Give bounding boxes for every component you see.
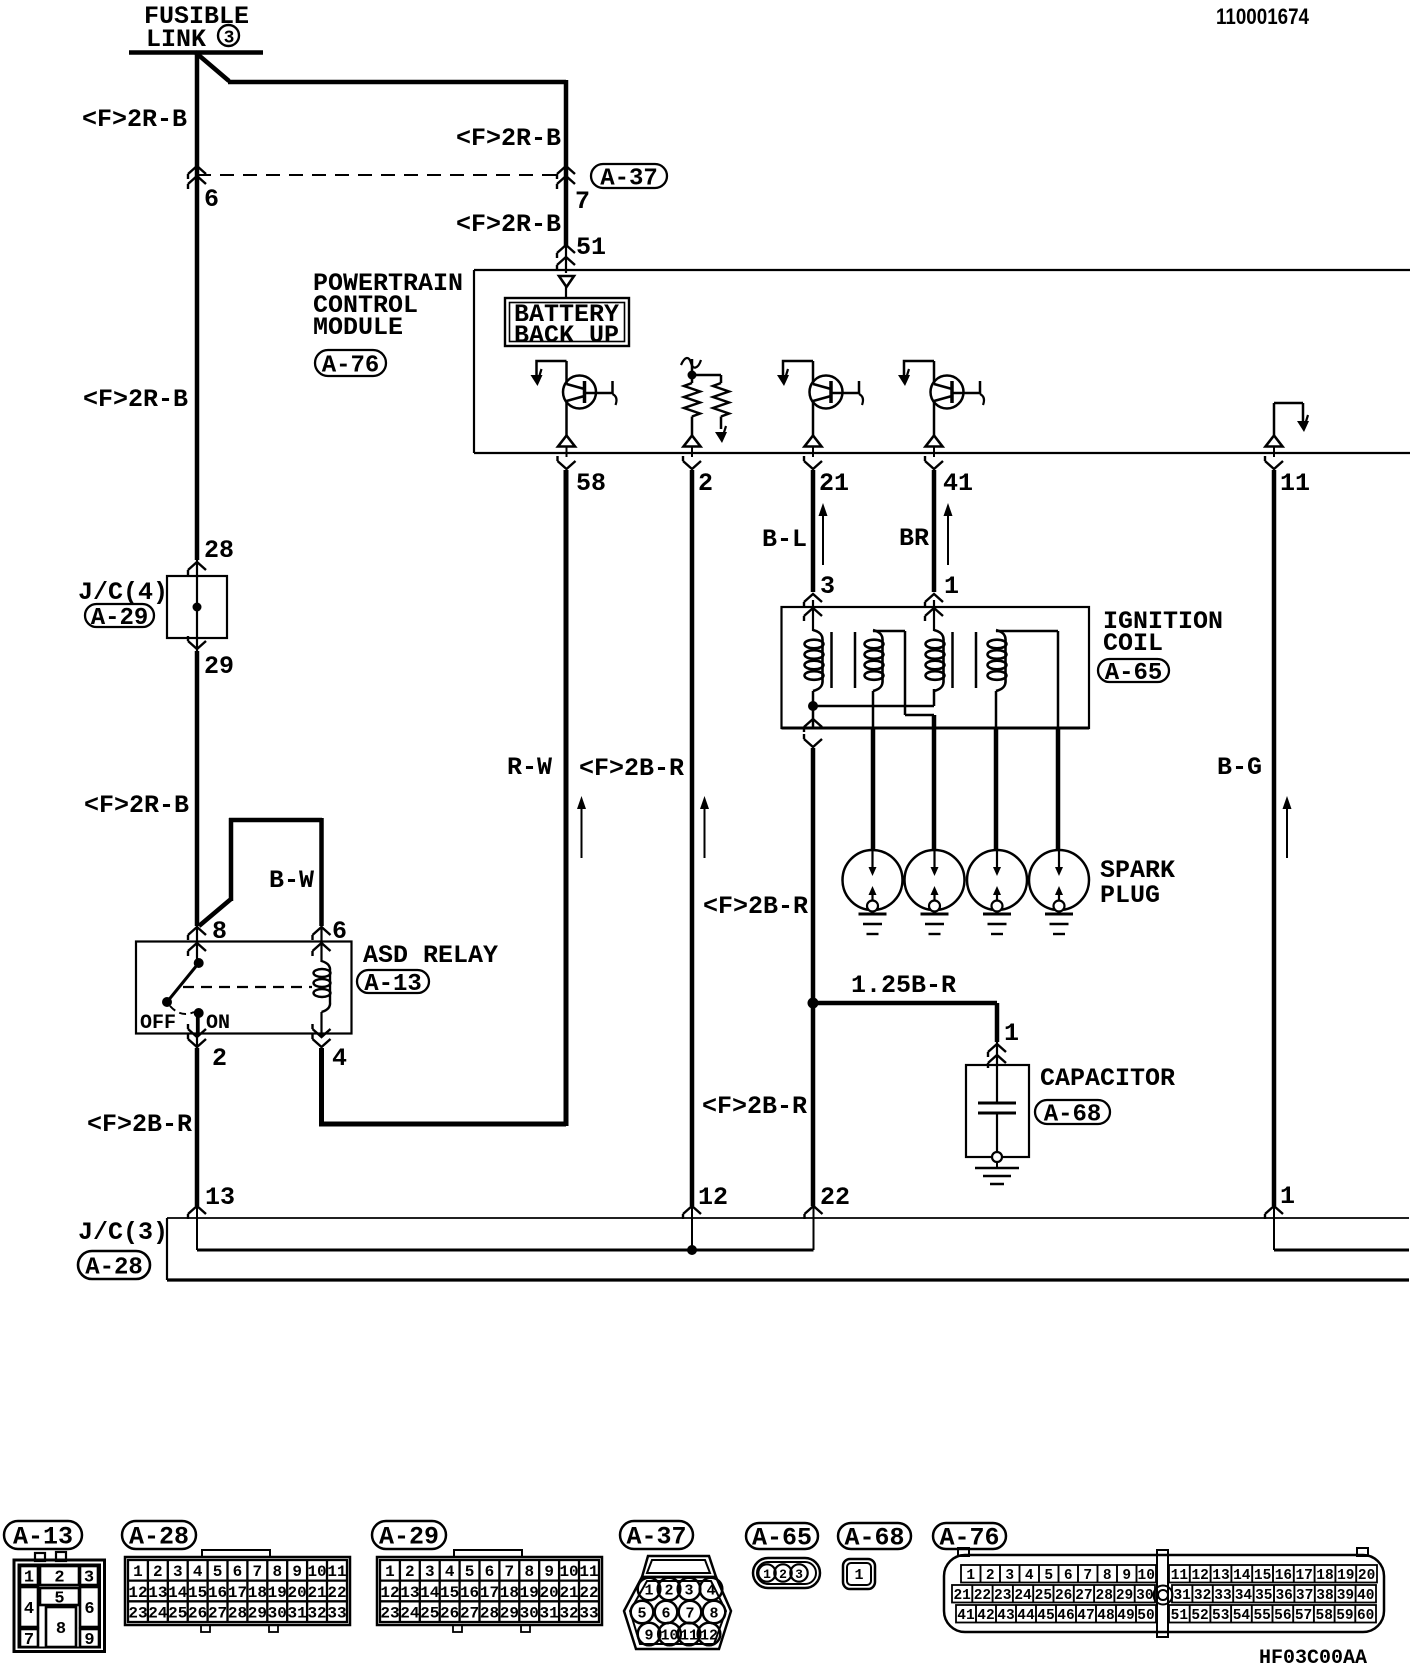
svg-text:10: 10 bbox=[559, 1563, 578, 1581]
svg-text:46: 46 bbox=[1057, 1608, 1074, 1624]
svg-text:12: 12 bbox=[1191, 1568, 1208, 1584]
svg-text:11: 11 bbox=[1280, 469, 1310, 498]
svg-text:50: 50 bbox=[1137, 1608, 1154, 1624]
svg-text:29: 29 bbox=[248, 1604, 267, 1622]
svg-text:A-29: A-29 bbox=[91, 605, 149, 632]
svg-text:4: 4 bbox=[193, 1563, 203, 1581]
svg-text:33: 33 bbox=[1214, 1588, 1231, 1604]
svg-text:1: 1 bbox=[966, 1568, 975, 1584]
svg-text:26: 26 bbox=[1055, 1588, 1072, 1604]
svg-text:MODULE: MODULE bbox=[313, 313, 403, 342]
svg-text:8: 8 bbox=[56, 1620, 66, 1639]
svg-text:32: 32 bbox=[307, 1604, 326, 1622]
svg-text:9: 9 bbox=[544, 1563, 554, 1581]
svg-text:2: 2 bbox=[664, 1583, 673, 1600]
svg-text:<F>2R-B: <F>2R-B bbox=[456, 124, 561, 153]
svg-text:PLUG: PLUG bbox=[1100, 881, 1160, 910]
svg-text:6: 6 bbox=[233, 1563, 243, 1581]
svg-text:6: 6 bbox=[84, 1600, 94, 1619]
svg-text:BACK UP: BACK UP bbox=[514, 321, 619, 350]
svg-text:26: 26 bbox=[440, 1604, 459, 1622]
svg-text:57: 57 bbox=[1295, 1608, 1312, 1624]
svg-text:LINK: LINK bbox=[146, 25, 206, 54]
svg-text:2: 2 bbox=[698, 469, 713, 498]
svg-text:4: 4 bbox=[445, 1563, 455, 1581]
svg-text:11: 11 bbox=[680, 1628, 698, 1645]
svg-text:3: 3 bbox=[684, 1583, 693, 1600]
svg-text:29: 29 bbox=[1116, 1588, 1133, 1604]
svg-text:25: 25 bbox=[168, 1604, 187, 1622]
svg-text:17: 17 bbox=[228, 1584, 247, 1602]
svg-text:16: 16 bbox=[1275, 1568, 1292, 1584]
svg-text:7: 7 bbox=[1083, 1568, 1092, 1584]
svg-text:53: 53 bbox=[1212, 1608, 1229, 1624]
svg-text:11: 11 bbox=[327, 1563, 346, 1581]
svg-text:14: 14 bbox=[420, 1584, 440, 1602]
svg-text:1: 1 bbox=[854, 1567, 863, 1584]
svg-text:1.25B-R: 1.25B-R bbox=[851, 971, 956, 1000]
svg-text:14: 14 bbox=[168, 1584, 188, 1602]
svg-text:8: 8 bbox=[1103, 1568, 1112, 1584]
svg-text:21: 21 bbox=[559, 1584, 578, 1602]
svg-text:31: 31 bbox=[1173, 1588, 1191, 1604]
svg-text:30: 30 bbox=[1136, 1588, 1153, 1604]
svg-text:2: 2 bbox=[54, 1569, 64, 1588]
svg-text:5: 5 bbox=[465, 1563, 475, 1581]
svg-text:3: 3 bbox=[425, 1563, 435, 1581]
svg-text:<F>2B-R: <F>2B-R bbox=[702, 1092, 807, 1121]
svg-text:1: 1 bbox=[24, 1569, 34, 1588]
svg-text:A-65: A-65 bbox=[752, 1524, 812, 1553]
svg-text:A-13: A-13 bbox=[364, 971, 422, 998]
svg-text:9: 9 bbox=[1122, 1568, 1131, 1584]
svg-text:3: 3 bbox=[84, 1569, 94, 1588]
svg-text:34: 34 bbox=[1235, 1588, 1253, 1604]
svg-text:18: 18 bbox=[500, 1584, 519, 1602]
svg-text:30: 30 bbox=[268, 1604, 287, 1622]
svg-text:B-W: B-W bbox=[269, 866, 314, 895]
svg-text:11: 11 bbox=[579, 1563, 598, 1581]
svg-text:1: 1 bbox=[763, 1567, 771, 1582]
svg-text:58: 58 bbox=[576, 469, 606, 498]
svg-text:8: 8 bbox=[212, 917, 227, 946]
svg-text:22: 22 bbox=[974, 1588, 991, 1604]
svg-text:A-68: A-68 bbox=[844, 1524, 904, 1553]
svg-text:2: 2 bbox=[212, 1044, 227, 1073]
svg-text:5: 5 bbox=[213, 1563, 223, 1581]
svg-text:24: 24 bbox=[1014, 1588, 1032, 1604]
svg-text:59: 59 bbox=[1336, 1608, 1353, 1624]
svg-text:12: 12 bbox=[128, 1584, 147, 1602]
svg-text:5: 5 bbox=[54, 1590, 64, 1609]
svg-text:COIL: COIL bbox=[1103, 629, 1163, 658]
svg-text:16: 16 bbox=[208, 1584, 227, 1602]
svg-text:9: 9 bbox=[644, 1628, 653, 1645]
svg-text:19: 19 bbox=[520, 1584, 539, 1602]
svg-text:25: 25 bbox=[420, 1604, 439, 1622]
svg-text:12: 12 bbox=[700, 1628, 718, 1645]
svg-text:10: 10 bbox=[1138, 1568, 1155, 1584]
svg-text:7: 7 bbox=[253, 1563, 263, 1581]
svg-text:9: 9 bbox=[292, 1563, 302, 1581]
svg-text:11: 11 bbox=[1171, 1568, 1189, 1584]
svg-text:13: 13 bbox=[400, 1584, 419, 1602]
svg-text:A-76: A-76 bbox=[322, 353, 380, 380]
svg-text:28: 28 bbox=[480, 1604, 499, 1622]
svg-text:20: 20 bbox=[1358, 1568, 1375, 1584]
svg-text:CAPACITOR: CAPACITOR bbox=[1040, 1064, 1175, 1093]
svg-text:J/C(4): J/C(4) bbox=[78, 578, 168, 607]
svg-text:10: 10 bbox=[660, 1628, 678, 1645]
svg-text:39: 39 bbox=[1337, 1588, 1354, 1604]
svg-text:31: 31 bbox=[540, 1604, 559, 1622]
svg-text:3: 3 bbox=[795, 1567, 803, 1582]
svg-text:<F>2B-R: <F>2B-R bbox=[87, 1110, 192, 1139]
svg-text:2: 2 bbox=[405, 1563, 415, 1581]
svg-text:28: 28 bbox=[1096, 1588, 1113, 1604]
svg-text:12: 12 bbox=[698, 1183, 728, 1212]
svg-text:15: 15 bbox=[1254, 1568, 1271, 1584]
svg-text:<F>2B-R: <F>2B-R bbox=[579, 754, 684, 783]
svg-text:ON: ON bbox=[206, 1012, 230, 1035]
svg-text:31: 31 bbox=[288, 1604, 307, 1622]
svg-text:ASD RELAY: ASD RELAY bbox=[363, 941, 498, 970]
svg-text:47: 47 bbox=[1077, 1608, 1094, 1624]
svg-text:2: 2 bbox=[779, 1567, 787, 1582]
svg-text:22: 22 bbox=[327, 1584, 346, 1602]
svg-text:51: 51 bbox=[1171, 1608, 1189, 1624]
svg-text:13: 13 bbox=[148, 1584, 167, 1602]
svg-text:29: 29 bbox=[500, 1604, 519, 1622]
svg-text:5: 5 bbox=[1044, 1568, 1053, 1584]
svg-text:HF03C00AA: HF03C00AA bbox=[1259, 1647, 1367, 1668]
svg-text:3: 3 bbox=[1005, 1568, 1014, 1584]
svg-text:18: 18 bbox=[248, 1584, 267, 1602]
svg-text:A-37: A-37 bbox=[600, 166, 658, 193]
svg-text:21: 21 bbox=[953, 1588, 971, 1604]
svg-text:110001674: 110001674 bbox=[1216, 4, 1310, 29]
svg-text:A-28: A-28 bbox=[129, 1523, 189, 1552]
svg-text:26: 26 bbox=[188, 1604, 207, 1622]
svg-text:15: 15 bbox=[440, 1584, 459, 1602]
svg-text:56: 56 bbox=[1274, 1608, 1291, 1624]
svg-text:7: 7 bbox=[24, 1631, 34, 1650]
svg-text:45: 45 bbox=[1037, 1608, 1054, 1624]
svg-text:23: 23 bbox=[380, 1604, 399, 1622]
svg-text:A-68: A-68 bbox=[1044, 1102, 1102, 1129]
svg-text:40: 40 bbox=[1357, 1588, 1374, 1604]
svg-text:B-G: B-G bbox=[1217, 753, 1262, 782]
svg-text:25: 25 bbox=[1035, 1588, 1052, 1604]
svg-text:41: 41 bbox=[957, 1608, 975, 1624]
svg-text:22: 22 bbox=[579, 1584, 598, 1602]
svg-text:32: 32 bbox=[1194, 1588, 1211, 1604]
svg-text:32: 32 bbox=[559, 1604, 578, 1622]
svg-text:19: 19 bbox=[1337, 1568, 1354, 1584]
svg-text:4: 4 bbox=[24, 1600, 34, 1619]
svg-text:3: 3 bbox=[820, 572, 835, 601]
svg-text:13: 13 bbox=[205, 1183, 235, 1212]
svg-text:17: 17 bbox=[480, 1584, 499, 1602]
svg-text:10: 10 bbox=[307, 1563, 326, 1581]
svg-text:55: 55 bbox=[1253, 1608, 1270, 1624]
svg-text:37: 37 bbox=[1296, 1588, 1313, 1604]
svg-text:<F>2R-B: <F>2R-B bbox=[82, 105, 187, 134]
svg-text:7: 7 bbox=[505, 1563, 515, 1581]
svg-text:6: 6 bbox=[1064, 1568, 1073, 1584]
svg-text:3: 3 bbox=[224, 29, 235, 49]
svg-text:2: 2 bbox=[153, 1563, 163, 1581]
svg-text:A-37: A-37 bbox=[626, 1523, 686, 1552]
svg-text:1: 1 bbox=[385, 1563, 395, 1581]
svg-text:14: 14 bbox=[1233, 1568, 1251, 1584]
svg-text:<F>2B-R: <F>2B-R bbox=[703, 892, 808, 921]
svg-text:51: 51 bbox=[576, 233, 606, 262]
svg-text:20: 20 bbox=[288, 1584, 307, 1602]
svg-text:1: 1 bbox=[644, 1583, 653, 1600]
svg-text:3: 3 bbox=[173, 1563, 183, 1581]
svg-text:B-L: B-L bbox=[762, 525, 807, 554]
svg-text:5: 5 bbox=[637, 1606, 646, 1623]
svg-text:1: 1 bbox=[944, 572, 959, 601]
svg-text:27: 27 bbox=[460, 1604, 479, 1622]
svg-text:20: 20 bbox=[540, 1584, 559, 1602]
svg-text:2: 2 bbox=[986, 1568, 995, 1584]
svg-text:<F>2R-B: <F>2R-B bbox=[456, 210, 561, 239]
svg-text:1: 1 bbox=[133, 1563, 143, 1581]
svg-text:41: 41 bbox=[943, 469, 973, 498]
svg-text:7: 7 bbox=[575, 187, 590, 216]
svg-text:A-28: A-28 bbox=[85, 1255, 143, 1282]
svg-text:38: 38 bbox=[1316, 1588, 1333, 1604]
svg-text:8: 8 bbox=[272, 1563, 282, 1581]
svg-text:6: 6 bbox=[485, 1563, 495, 1581]
svg-text:6: 6 bbox=[661, 1606, 670, 1623]
svg-text:23: 23 bbox=[994, 1588, 1011, 1604]
svg-text:J/C(3): J/C(3) bbox=[78, 1218, 168, 1247]
svg-text:27: 27 bbox=[208, 1604, 227, 1622]
svg-text:18: 18 bbox=[1316, 1568, 1333, 1584]
svg-text:9: 9 bbox=[84, 1631, 94, 1650]
svg-text:6: 6 bbox=[204, 185, 219, 214]
svg-text:54: 54 bbox=[1233, 1608, 1251, 1624]
svg-text:R-W: R-W bbox=[507, 753, 552, 782]
svg-text:43: 43 bbox=[997, 1608, 1014, 1624]
svg-text:6: 6 bbox=[332, 917, 347, 946]
svg-text:33: 33 bbox=[579, 1604, 598, 1622]
svg-text:21: 21 bbox=[307, 1584, 326, 1602]
svg-text:28: 28 bbox=[204, 536, 234, 565]
svg-text:27: 27 bbox=[1075, 1588, 1092, 1604]
svg-text:24: 24 bbox=[400, 1604, 420, 1622]
svg-text:28: 28 bbox=[228, 1604, 247, 1622]
svg-text:A-13: A-13 bbox=[13, 1523, 73, 1552]
svg-text:<F>2R-B: <F>2R-B bbox=[83, 385, 188, 414]
svg-text:12: 12 bbox=[380, 1584, 399, 1602]
svg-text:30: 30 bbox=[520, 1604, 539, 1622]
svg-text:1: 1 bbox=[1004, 1019, 1019, 1048]
svg-text:24: 24 bbox=[148, 1604, 168, 1622]
svg-text:16: 16 bbox=[460, 1584, 479, 1602]
svg-text:22: 22 bbox=[820, 1183, 850, 1212]
svg-text:52: 52 bbox=[1191, 1608, 1208, 1624]
svg-text:35: 35 bbox=[1255, 1588, 1272, 1604]
svg-text:13: 13 bbox=[1212, 1568, 1229, 1584]
svg-text:29: 29 bbox=[204, 652, 234, 681]
svg-text:A-29: A-29 bbox=[379, 1523, 439, 1552]
svg-text:19: 19 bbox=[268, 1584, 287, 1602]
svg-text:7: 7 bbox=[685, 1606, 694, 1623]
svg-text:15: 15 bbox=[188, 1584, 207, 1602]
svg-text:23: 23 bbox=[128, 1604, 147, 1622]
svg-text:A-65: A-65 bbox=[1105, 660, 1163, 687]
svg-text:58: 58 bbox=[1316, 1608, 1333, 1624]
svg-text:42: 42 bbox=[977, 1608, 994, 1624]
svg-text:4: 4 bbox=[1025, 1568, 1034, 1584]
svg-text:36: 36 bbox=[1275, 1588, 1292, 1604]
svg-text:48: 48 bbox=[1097, 1608, 1114, 1624]
svg-text:17: 17 bbox=[1295, 1568, 1312, 1584]
svg-text:33: 33 bbox=[327, 1604, 346, 1622]
svg-text:OFF: OFF bbox=[140, 1012, 176, 1035]
svg-text:<F>2R-B: <F>2R-B bbox=[84, 791, 189, 820]
svg-text:BR: BR bbox=[899, 524, 929, 553]
svg-text:44: 44 bbox=[1017, 1608, 1035, 1624]
svg-text:1: 1 bbox=[1280, 1182, 1295, 1211]
svg-text:4: 4 bbox=[332, 1044, 347, 1073]
svg-text:4: 4 bbox=[706, 1583, 715, 1600]
svg-text:8: 8 bbox=[709, 1606, 718, 1623]
svg-text:60: 60 bbox=[1357, 1608, 1374, 1624]
svg-text:49: 49 bbox=[1117, 1608, 1134, 1624]
svg-text:21: 21 bbox=[819, 469, 849, 498]
svg-text:8: 8 bbox=[524, 1563, 534, 1581]
